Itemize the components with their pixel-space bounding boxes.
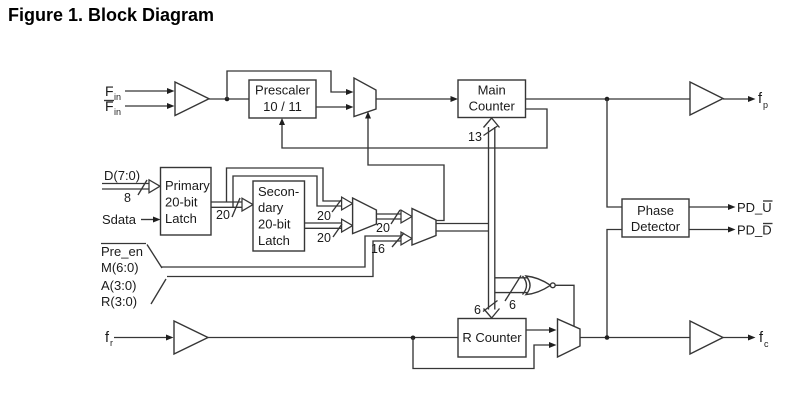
junction node C <box>411 336 416 341</box>
svg-text:Prescaler: Prescaler <box>255 83 311 98</box>
open arrow bypass into mux M2 <box>342 197 353 210</box>
prescaler box <box>249 80 316 118</box>
svg-text:F: F <box>105 83 114 99</box>
svg-text:dary: dary <box>258 200 284 215</box>
svg-text:in: in <box>114 107 121 117</box>
mux M1 prescaler select <box>354 78 376 117</box>
primary latch box <box>161 168 212 236</box>
svg-text:6: 6 <box>474 303 481 317</box>
wire main counter feedback to prescaler <box>279 109 547 148</box>
open arrow 13 bus into main counter <box>484 118 500 128</box>
wire R counter out <box>526 327 557 333</box>
svg-text:16: 16 <box>371 242 385 256</box>
svg-text:r: r <box>110 338 113 348</box>
wire bypass over prescaler <box>227 71 354 99</box>
slash Pre_en fan-in <box>147 245 162 269</box>
wire Fin-bar to buffer <box>125 103 175 109</box>
bus width slash 13 <box>468 126 498 144</box>
junction node A <box>225 97 230 102</box>
svg-text:in: in <box>114 92 121 102</box>
bus mux M2 out <box>376 210 412 223</box>
bus width slash 16 <box>371 233 404 256</box>
junction node D <box>605 335 610 340</box>
svg-text:Latch: Latch <box>165 211 197 226</box>
buffer U4 fc output amp <box>690 321 723 354</box>
wire PD_D out <box>689 227 736 233</box>
wire fr to buffer <box>114 335 174 341</box>
node fr label <box>105 330 113 348</box>
svg-text:M(6:0): M(6:0) <box>101 260 139 275</box>
junction node B <box>605 97 610 102</box>
svg-text:Secon-: Secon- <box>258 184 299 199</box>
svg-text:20-bit: 20-bit <box>165 195 198 210</box>
node Pre_en label <box>101 244 146 260</box>
mux M2 latch select <box>353 198 377 234</box>
node Fin label <box>105 83 121 102</box>
buffer U2 fp output amp <box>690 82 723 115</box>
node Fin-bar label <box>104 98 121 117</box>
wire main counter to fp buffer <box>526 98 691 100</box>
bus mux M3 out upper <box>436 223 489 225</box>
bus width slash 20 secondary <box>317 224 342 245</box>
gate XNOR <box>523 276 556 295</box>
R counter box <box>458 319 526 358</box>
wire Sdata arrow <box>141 217 161 223</box>
main counter box <box>458 80 526 118</box>
wire fp out <box>723 96 756 102</box>
wire fr buffer to R counter <box>208 337 458 339</box>
svg-text:Figure 1. Block Diagram: Figure 1. Block Diagram <box>8 5 214 25</box>
svg-text:PD_U: PD_U <box>737 200 772 215</box>
node fp label <box>758 91 768 110</box>
open arrow 16 bus into mux M3 <box>401 232 412 245</box>
wire prescaler out <box>316 104 354 110</box>
bus bypass around secondary latch inner <box>233 176 342 207</box>
bus width slash 6 lower <box>474 301 498 318</box>
wire mux M1 to main counter <box>376 96 458 102</box>
svg-text:13: 13 <box>468 130 482 144</box>
bus width slash 20 mux out <box>376 210 400 235</box>
node PD_D label <box>737 223 773 238</box>
svg-text:Main: Main <box>478 83 506 98</box>
bus taps to xnor <box>495 278 527 293</box>
svg-text:20-bit: 20-bit <box>258 217 291 232</box>
bus bypass around secondary latch outer <box>227 168 343 202</box>
svg-text:Sdata: Sdata <box>102 212 137 227</box>
wire buffer to prescaler <box>209 98 249 100</box>
svg-text:20: 20 <box>317 209 331 223</box>
phase detector box <box>622 199 689 237</box>
bus primary latch out <box>211 198 253 211</box>
mux M4 reference select <box>558 319 581 357</box>
wire fc out <box>723 335 756 341</box>
wire mux M1 select arrow <box>365 112 444 221</box>
wire fp vertical to phase detector <box>607 99 622 207</box>
wire fr bypass under R counter <box>413 338 557 369</box>
svg-text:20: 20 <box>376 221 390 235</box>
svg-text:p: p <box>763 100 768 110</box>
svg-text:8: 8 <box>124 191 131 205</box>
wire Fin to buffer <box>125 88 175 94</box>
wire fr vertical to phase detector <box>607 230 622 338</box>
svg-text:Phase: Phase <box>637 203 674 218</box>
bus vertical N counter left line <box>488 127 490 310</box>
mux M3 bus select <box>412 209 436 246</box>
buffer U1 input amp <box>175 82 209 116</box>
svg-text:Detector: Detector <box>631 219 681 234</box>
svg-text:Pre_en: Pre_en <box>101 244 143 259</box>
wire PD_U out <box>689 204 736 210</box>
svg-text:20: 20 <box>216 208 230 222</box>
svg-text:D(7:0): D(7:0) <box>104 168 140 183</box>
svg-text:PD_D: PD_D <box>737 223 772 238</box>
svg-text:10 / 11: 10 / 11 <box>263 99 302 114</box>
bus direct 16 lower line <box>167 241 401 277</box>
bus secondary latch out <box>305 219 353 232</box>
svg-text:A(3:0): A(3:0) <box>101 278 136 293</box>
svg-text:Counter: Counter <box>469 99 516 114</box>
bus width slash 20 primary <box>216 198 240 222</box>
svg-text:R Counter: R Counter <box>462 330 522 345</box>
bus width slash 8 <box>124 180 147 205</box>
wire xnor out to mux M4 select <box>555 285 574 326</box>
svg-text:20: 20 <box>317 231 331 245</box>
node fc label <box>759 330 769 349</box>
slash R(3:0) fan-in <box>151 279 166 304</box>
bus mux M3 out lower <box>436 230 489 232</box>
bus width slash 6 xnor <box>505 276 521 313</box>
bus width slash 20 bypass <box>317 200 341 223</box>
open arrow 6 bus into R counter <box>484 309 500 319</box>
svg-text:6: 6 <box>509 298 516 312</box>
svg-text:c: c <box>764 339 769 349</box>
bus direct 16 upper line <box>161 236 401 267</box>
node PD_U label <box>737 200 773 215</box>
svg-text:Primary: Primary <box>165 178 210 193</box>
secondary latch box <box>253 181 305 251</box>
svg-text:Latch: Latch <box>258 233 290 248</box>
wire mux M4 to fc buffer <box>580 337 690 339</box>
buffer U3 fr input amp <box>174 321 208 354</box>
bus vertical N counter right line <box>494 127 496 310</box>
bus D(7:0) into primary latch <box>102 180 160 193</box>
svg-text:R(3:0): R(3:0) <box>101 294 137 309</box>
